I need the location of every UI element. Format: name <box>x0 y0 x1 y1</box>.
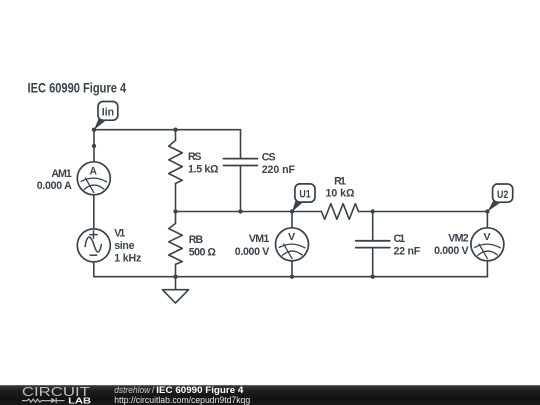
junction VM1 bottom <box>290 275 294 279</box>
resistor R1 <box>321 204 358 220</box>
node flag U1 <box>292 184 315 212</box>
wire C1 top stub <box>372 212 374 241</box>
svg-text:C1: C1 <box>394 233 406 245</box>
svg-text:22 nF: 22 nF <box>394 245 421 257</box>
wire middle rail right (R1 to U2) <box>359 211 488 213</box>
svg-text:0.000 V: 0.000 V <box>434 245 469 257</box>
junction AM1 probe <box>92 144 96 148</box>
junction Iin node <box>92 128 96 132</box>
wire VM2 top stub <box>486 212 488 228</box>
voltmeter VM1 <box>276 228 309 261</box>
svg-text:R1: R1 <box>334 175 346 187</box>
svg-text:VM2: VM2 <box>448 233 468 245</box>
capacitor C1 plates <box>356 241 390 248</box>
junction RS top <box>173 128 177 132</box>
svg-text:LAB: LAB <box>68 397 91 405</box>
ammeter AM1 <box>77 162 110 195</box>
wire CS top stub <box>240 130 242 159</box>
CircuitLab logo wordmark <box>22 385 91 405</box>
svg-text:V: V <box>484 231 491 243</box>
junction ground <box>173 275 177 279</box>
wire VM1 top stub <box>291 212 293 228</box>
svg-text:V1: V1 <box>114 227 125 239</box>
svg-text:220 nF: 220 nF <box>262 164 296 176</box>
svg-text:RS: RS <box>188 151 202 163</box>
voltmeter VM2 <box>471 228 504 261</box>
svg-text:http://circuitlab.com/cepudn9t: http://circuitlab.com/cepudn9td7kqg <box>114 395 250 405</box>
resistor RB <box>169 223 183 264</box>
wire RS bottom stub <box>175 183 177 211</box>
svg-text:Iin: Iin <box>102 106 114 118</box>
wire V1 bottom <box>93 262 95 277</box>
junction RS/RB middle <box>173 209 177 213</box>
svg-text:U2: U2 <box>497 189 508 201</box>
svg-text:0.000 V: 0.000 V <box>235 246 270 258</box>
voltage source V1 <box>77 229 110 262</box>
wire top horizontal (Iin node to CS) <box>94 129 241 131</box>
svg-text:10 kΩ: 10 kΩ <box>326 188 356 200</box>
svg-text:A: A <box>90 165 97 177</box>
wire VM1 bottom stub <box>291 261 293 277</box>
wire ground stub <box>175 277 177 290</box>
svg-text:IEC 60990 Figure 4: IEC 60990 Figure 4 <box>28 81 127 96</box>
svg-text:500 Ω: 500 Ω <box>189 246 217 258</box>
junction C1 top <box>371 209 375 213</box>
wire bottom horizontal rail <box>94 276 488 278</box>
svg-text:CS: CS <box>262 152 276 164</box>
wire RS top stub <box>175 130 177 141</box>
wire VM2 bottom stub <box>486 261 488 277</box>
resistor RS <box>169 140 183 183</box>
footer bar <box>0 385 540 405</box>
wire AM1 to V1 <box>93 195 95 229</box>
wire C1 bottom stub <box>372 248 374 277</box>
svg-text:1 kHz: 1 kHz <box>114 253 141 265</box>
wire middle rail left (RB node to R1) <box>176 211 322 213</box>
node flag U2 <box>487 184 512 212</box>
junction CS bottom <box>238 209 242 213</box>
svg-text:IEC 60990 Figure 4: IEC 60990 Figure 4 <box>156 385 243 395</box>
node flag Iin <box>94 102 118 130</box>
wire CS bottom stub <box>240 166 242 212</box>
svg-text:U1: U1 <box>299 189 310 201</box>
svg-text:VM1: VM1 <box>249 233 269 245</box>
wire Iin node down to AM1 <box>93 130 95 162</box>
svg-text:0.000 A: 0.000 A <box>37 180 72 192</box>
svg-text:sine: sine <box>114 240 134 252</box>
junction C1 bottom <box>371 275 375 279</box>
wire RB top stub <box>175 212 177 224</box>
junction U1 node <box>290 209 294 213</box>
svg-text:RB: RB <box>189 234 204 246</box>
svg-text:AM1: AM1 <box>51 168 71 180</box>
capacitor CS plates <box>224 159 258 166</box>
wire RB bottom stub <box>175 264 177 276</box>
svg-text:dstrehlow: dstrehlow <box>114 385 151 395</box>
svg-text:V: V <box>288 231 295 243</box>
junction U2 node <box>485 209 489 213</box>
svg-text:1.5 kΩ: 1.5 kΩ <box>188 163 219 175</box>
ground <box>162 290 188 303</box>
